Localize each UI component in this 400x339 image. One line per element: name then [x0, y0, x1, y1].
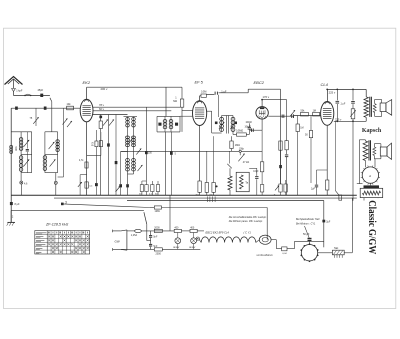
- cap blob branch: [95, 156, 97, 184]
- coil L2: [19, 156, 22, 160]
- column B bottom wire: [45, 172, 58, 174]
- mains switch: [144, 212, 147, 224]
- bundle hatches: [206, 196, 208, 202]
- IF2 transformer: [222, 115, 233, 117]
- EF9 top cap wire: [199, 96, 201, 101]
- svg-text:78 v: 78 v: [99, 103, 105, 107]
- trimmer 75pF: [35, 108, 37, 126]
- CL4 top cap riser: [327, 89, 329, 102]
- cap 100pF b: [281, 115, 283, 118]
- switch contact: [25, 94, 31, 95]
- svg-text:2000: 2000: [156, 252, 162, 255]
- svg-text:Bei Allstrom : CY1: Bei Allstrom : CY1: [296, 222, 316, 225]
- column A top wire: [11, 131, 32, 133]
- switch table: [35, 231, 90, 254]
- loop to rectifier: [295, 240, 324, 242]
- svg-text:10kpF: 10kpF: [245, 127, 252, 129]
- det drop: [286, 100, 288, 141]
- cathode link: [87, 155, 101, 157]
- resistor pair EK2 a: [95, 130, 97, 141]
- speaker2 core: [368, 140, 370, 160]
- osc caps: [158, 123, 161, 126]
- antenna plug: [12, 89, 16, 92]
- CL4 anode line: [334, 120, 366, 122]
- EK2 cathode: [86, 122, 88, 196]
- mains terminals GW: [113, 230, 121, 232]
- IF2 junction caps: [215, 122, 218, 125]
- resistor 1M det: [297, 116, 299, 125]
- top link with resistor: [200, 95, 201, 97]
- resistor 1M bus: [154, 206, 161, 209]
- fuse 1.25A: [127, 230, 135, 232]
- long vertical 150pF: [145, 107, 147, 181]
- tube CL4: [321, 102, 334, 126]
- trimmer L1: [23, 140, 29, 147]
- plug bar: [121, 230, 127, 231]
- svg-text:50 μF: 50 μF: [303, 233, 310, 236]
- svg-text:2μF: 2μF: [326, 221, 331, 223]
- EF9 cathode: [199, 126, 201, 182]
- drop from cap: [217, 95, 219, 117]
- svg-text:225 v: 225 v: [329, 90, 336, 94]
- ballast tube: [256, 239, 259, 241]
- field coil: [363, 141, 368, 161]
- tone network: [352, 89, 354, 100]
- trimmer L4: [50, 159, 56, 166]
- resistor 0.5M: [232, 132, 234, 135]
- EF9 grid line: [182, 110, 193, 112]
- pointer line: [305, 226, 310, 238]
- long drop x280: [280, 89, 282, 184]
- lamp a: [175, 238, 181, 244]
- column A mid wire: [21, 154, 32, 156]
- capacitor blob b: [44, 107, 47, 110]
- capacitor 0.1uF: [214, 92, 216, 95]
- main ground bus: [11, 194, 357, 196]
- svg-text:1 kpF: 1 kpF: [16, 89, 23, 92]
- AF choke: [229, 168, 231, 176]
- bypass branch: [80, 174, 86, 176]
- resistor grid 2: [313, 112, 320, 116]
- wire antenna row: [14, 95, 50, 97]
- antenna: [5, 77, 23, 85]
- resistor 1M: [181, 87, 183, 99]
- coil L1: [20, 132, 22, 138]
- motor armature: [362, 167, 378, 183]
- hatch x213 link: [214, 135, 222, 137]
- EBC2 plate riser: [261, 100, 263, 107]
- svg-text:BF/BV: BF/BV: [189, 247, 196, 249]
- left rail: [10, 108, 12, 222]
- svg-text:10pF: 10pF: [253, 171, 259, 173]
- link to EBC2 bus: [219, 92, 249, 94]
- resistor 400 a: [174, 229, 181, 232]
- svg-text:Takt: Takt: [334, 247, 339, 250]
- capacitor 8uF: [10, 202, 13, 205]
- svg-text:vor Ra Allstrom: vor Ra Allstrom: [257, 254, 273, 257]
- speaker 2: [380, 147, 387, 156]
- terminal B: [54, 181, 57, 184]
- column B top wire: [45, 131, 58, 133]
- IF1 left cap drop: [120, 152, 122, 185]
- IF1 trimmers: [128, 138, 133, 145]
- sloped B+ line: [62, 204, 150, 208]
- trimmer pair EK2: [103, 119, 108, 125]
- switch to row2: [50, 98, 52, 102]
- grid line CL4: [294, 115, 321, 117]
- diode line right: [268, 115, 294, 117]
- svg-text:.1 μF: .1 μF: [340, 103, 346, 106]
- wire grid row: [11, 107, 80, 109]
- svg-text:2000: 2000: [154, 226, 160, 229]
- resistor 0.04: [282, 247, 287, 251]
- switch S2: [229, 151, 231, 163]
- svg-text:EBC2 EK2 EF9 CL4: EBC2 EK2 EF9 CL4: [206, 230, 230, 234]
- osc coil b: [169, 120, 173, 123]
- svg-text:100pF: 100pF: [246, 122, 253, 124]
- IF1 coil top pair: [124, 116, 138, 118]
- svg-text:200 v: 200 v: [101, 87, 108, 91]
- left rail speaker: [358, 140, 360, 184]
- resistor Rk: [100, 115, 102, 122]
- volume pot: [238, 154, 244, 162]
- junction dot: [216, 185, 218, 187]
- terminal A: [20, 181, 23, 184]
- resistor row boxes: [141, 181, 143, 185]
- hum resistor box: [360, 188, 383, 197]
- screen line: [93, 114, 128, 116]
- line caps 5nF: [150, 231, 152, 235]
- cap screen b: [99, 116, 102, 119]
- output transformer primary: [365, 89, 367, 97]
- cap 0,1 drop: [115, 115, 117, 162]
- capacitor 45pF: [40, 94, 43, 97]
- junction dots CL4: [336, 89, 338, 91]
- tube EBC2: [256, 107, 268, 119]
- cap blob screen: [107, 143, 110, 146]
- svg-text:1M: 1M: [313, 109, 316, 112]
- svg-text:60 v: 60 v: [99, 107, 105, 111]
- IF1 coil low pair: [126, 159, 130, 162]
- IF1 coil mid pair: [126, 136, 130, 139]
- resistor 0.3M: [279, 141, 282, 150]
- EF9 bottom resistors: [198, 181, 201, 192]
- svg-text:400: 400: [174, 226, 179, 229]
- svg-text:0,5M: 0,5M: [201, 91, 206, 94]
- svg-text:Die Umschaltkontakte öffn: Lau: Die Umschaltkontakte öffn: Lautspr.: [229, 216, 267, 219]
- ground symbol: [10, 211, 12, 223]
- transformer Ta box: [236, 172, 249, 191]
- chain to rectifier: [271, 239, 276, 241]
- filament humps: [201, 237, 256, 243]
- column A right wire: [31, 132, 33, 173]
- resistor 50k grid: [301, 112, 309, 116]
- trimmer L3: [49, 142, 55, 149]
- coupling cap CL4: [291, 114, 293, 118]
- svg-text:225 v: 225 v: [335, 117, 342, 121]
- anode line 78v: [93, 106, 181, 108]
- EF9 anode link: [207, 110, 212, 112]
- IF1 bottoms: [127, 171, 129, 184]
- trimmer L2: [23, 159, 29, 166]
- svg-text:Ta: Ta: [245, 181, 248, 185]
- cap 0.1uF CL4: [336, 89, 338, 100]
- EBC2 cathode resistor: [261, 130, 263, 162]
- svg-text:Kapsch: Kapsch: [362, 128, 382, 134]
- svg-text:MΩ: MΩ: [173, 100, 177, 103]
- resistor 400 b: [190, 229, 197, 232]
- coil L4: [44, 132, 46, 156]
- coil L3: [57, 132, 59, 140]
- svg-text:EF 5: EF 5: [195, 80, 204, 85]
- svg-text:BF/BV: BF/BV: [173, 247, 180, 249]
- svg-text:EK2: EK2: [83, 80, 91, 85]
- drop 2uF line: [323, 201, 325, 248]
- rectifier CY1: [301, 245, 317, 261]
- svg-text:5nF: 5nF: [153, 237, 158, 239]
- column B mid wire: [45, 154, 58, 156]
- svg-text:176 v: 176 v: [263, 95, 270, 99]
- svg-text:ZF-128,5 kHz: ZF-128,5 kHz: [45, 222, 68, 226]
- divider resistor Takt: [318, 252, 333, 254]
- trimmer row a: [116, 186, 121, 192]
- heater bus 3: [127, 200, 324, 202]
- svg-text:47 kΩ: 47 kΩ: [243, 161, 250, 164]
- junction node: [239, 150, 241, 152]
- EBC2 bottom boxes: [279, 184, 282, 192]
- svg-text:1MΩ: 1MΩ: [155, 210, 160, 213]
- capacitor blob a: [15, 107, 18, 110]
- osc feed from 200v: [165, 87, 167, 116]
- svg-text:Die Röhren paras. öffn: Lautsp: Die Röhren paras. öffn: Lautspr.: [229, 220, 263, 223]
- osc drops: [165, 132, 167, 195]
- top bus segment: [248, 88, 280, 90]
- tube EF9: [193, 101, 207, 126]
- EK2 top cap wire: [86, 87, 88, 99]
- diode RC: [261, 119, 263, 130]
- padder line: [63, 108, 65, 177]
- capacitor column A: [26, 132, 28, 149]
- svg-text:1M: 1M: [300, 128, 303, 130]
- anode line 60v: [93, 110, 171, 112]
- feed vertical: [169, 195, 171, 231]
- resistor 1M vert: [231, 136, 233, 141]
- AVC drop: [169, 151, 171, 195]
- svg-text:3: 3: [65, 200, 67, 204]
- svg-text:1,25A: 1,25A: [131, 234, 138, 237]
- chain terminal: [196, 237, 199, 240]
- junction dot plate: [261, 99, 263, 101]
- IF2 trimmers: [219, 122, 224, 129]
- svg-text:1MΩ: 1MΩ: [235, 144, 240, 147]
- speaker2 top wire: [359, 139, 365, 141]
- svg-text:Bei Sparkathode: Takt: Bei Sparkathode: Takt: [296, 218, 320, 221]
- terminal bar: [364, 185, 380, 188]
- cathode bias box: [85, 182, 88, 188]
- switch S3: [334, 121, 336, 190]
- resistor 2000 a: [154, 229, 162, 232]
- fuse top line: [339, 195, 342, 200]
- node 3 terminal: [61, 203, 64, 206]
- lamp b: [191, 238, 197, 244]
- transformer core: [369, 97, 371, 117]
- B+ drop to ballast: [266, 208, 268, 240]
- resistor 2000 b: [154, 248, 162, 251]
- svg-text:0,5MΩ: 0,5MΩ: [236, 130, 243, 133]
- mains line: [11, 210, 144, 212]
- speaker2 secondary: [373, 147, 376, 156]
- resistor pair EK2 b: [100, 132, 102, 141]
- resistor 10k: [67, 106, 74, 110]
- osc coil box: [157, 115, 180, 117]
- AVC line: [121, 150, 240, 152]
- screen drop: [107, 115, 109, 196]
- resistor 50 drop: [310, 116, 312, 131]
- heater bus 2: [54, 197, 357, 199]
- cathode resistor 4.7k: [85, 162, 88, 168]
- svg-text:45pF: 45pF: [38, 89, 44, 92]
- svg-text:400: 400: [190, 226, 195, 229]
- speaker1 secondary: [373, 104, 376, 113]
- svg-text:CL4: CL4: [321, 82, 329, 87]
- speaker 1: [380, 103, 386, 112]
- 200v line: [87, 86, 182, 88]
- svg-text:( C Y1: ( C Y1: [244, 230, 252, 234]
- svg-text:8 μF: 8 μF: [15, 203, 21, 206]
- CL4 cathode: [326, 125, 328, 180]
- motor wires: [364, 161, 366, 168]
- svg-text:2μF: 2μF: [311, 189, 316, 191]
- padder trimmers: [63, 118, 68, 124]
- svg-text:EBC2: EBC2: [254, 80, 265, 85]
- tube EK2: [80, 99, 93, 122]
- antenna coil 500: [10, 146, 13, 149]
- cap 2uF: [317, 169, 328, 171]
- svg-text:5nF: 5nF: [153, 246, 158, 248]
- capacitor 100pF: [248, 124, 250, 128]
- svg-text:Classic G/GW: Classic G/GW: [366, 200, 378, 254]
- top bus CL4 segment: [328, 88, 367, 90]
- osc coil a: [163, 120, 167, 123]
- svg-text:A: A: [368, 174, 371, 178]
